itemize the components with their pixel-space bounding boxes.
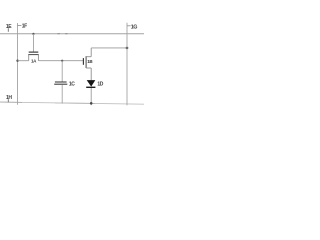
svg-text:1D: 1D — [97, 82, 103, 88]
svg-text:1H: 1H — [6, 95, 12, 101]
svg-text:1G: 1G — [131, 24, 138, 30]
svg-text:1F: 1F — [22, 24, 27, 30]
svg-text:1C: 1C — [69, 82, 75, 88]
